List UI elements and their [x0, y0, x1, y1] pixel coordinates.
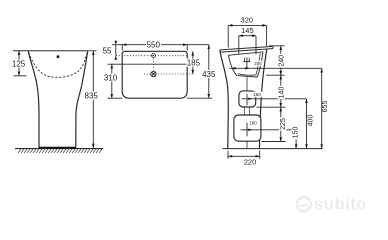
svg-text:145: 145	[241, 26, 254, 35]
svg-text:225: 225	[280, 118, 287, 130]
svg-text:310: 310	[104, 74, 118, 83]
svg-text:435: 435	[202, 70, 216, 79]
svg-text:185: 185	[187, 59, 201, 68]
svg-text:220: 220	[244, 158, 257, 167]
svg-text:200: 200	[254, 61, 262, 66]
svg-text:655: 655	[322, 101, 329, 113]
svg-text:835: 835	[85, 91, 99, 100]
svg-text:400: 400	[308, 115, 315, 127]
svg-text:150: 150	[292, 127, 299, 139]
svg-text:55: 55	[103, 47, 112, 56]
svg-text:125: 125	[12, 59, 26, 68]
svg-text:subito: subito	[314, 196, 367, 214]
svg-text:140: 140	[279, 87, 286, 99]
svg-text:240: 240	[279, 55, 286, 67]
svg-text:320: 320	[241, 15, 254, 24]
svg-text:150: 150	[253, 92, 261, 97]
svg-text:550: 550	[147, 41, 161, 50]
svg-text:180: 180	[249, 120, 257, 125]
